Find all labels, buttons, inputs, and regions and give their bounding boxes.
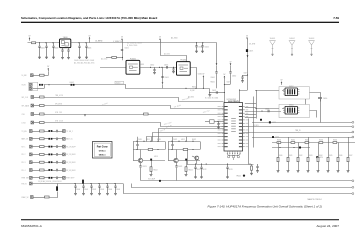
wire: [44, 138, 48, 140]
capacitor C6053: [166, 66, 167, 69]
wire: [52, 146, 56, 148]
wire emitter 11: [140, 163, 142, 166]
svg-text:C6062: C6062: [232, 76, 236, 78]
wire R11c gnd stub: [151, 171, 153, 174]
wire bias feed FL6051: [106, 57, 122, 59]
wire buffer rail 11: [133, 141, 165, 143]
svg-text:C6052: C6052: [150, 64, 154, 66]
bead on line 1: [269, 121, 271, 123]
svg-text:C6046: C6046: [205, 47, 209, 49]
svg-text:C6001: C6001: [40, 48, 45, 50]
arrow on riser: [247, 55, 249, 57]
capacitor C6005: [85, 43, 87, 57]
wire buffer mid rail 12: [168, 149, 200, 151]
offsheet terminal y122.3: [352, 121, 354, 123]
svg-text:TX_EN_2: TX_EN_2: [66, 131, 73, 133]
wire: [52, 162, 56, 164]
svg-text:C6121: C6121: [173, 139, 177, 141]
wire to U6054 in: [256, 108, 279, 110]
connector RX_2: [30, 153, 33, 156]
header rule: [21, 22, 339, 23]
connector out RX_2: [63, 153, 66, 156]
svg-text:R637: R637: [349, 155, 352, 157]
capacitor C6004: [78, 43, 80, 57]
wire: [52, 154, 56, 156]
svg-text:R6230: R6230: [319, 140, 323, 142]
svg-text:C6113: C6113: [143, 166, 147, 168]
ground: [195, 51, 198, 53]
connector RX_3: [30, 161, 33, 164]
wire analog rail: [187, 164, 254, 166]
svg-text:RX_4F_BUFF: RX_4F_BUFF: [66, 170, 76, 172]
offsheet terminal y132.0: [352, 131, 354, 133]
svg-text:C6144: C6144: [108, 189, 112, 191]
ground R11c: [150, 174, 153, 176]
wire gnd stub: [209, 93, 211, 95]
resistor R6370: [347, 157, 349, 161]
wire net SYN_LOCK: [45, 123, 224, 127]
junction: [39, 42, 40, 43]
junction: [150, 67, 151, 68]
ferrite bead E12: [185, 159, 187, 161]
junction rail 1111: [143, 141, 144, 142]
wire riser tap: [243, 75, 248, 77]
wire collector 12: [176, 150, 178, 159]
junction rail x201.5: [201, 163, 202, 164]
bead on bus 2: [272, 136, 274, 138]
svg-text:RX_4: RX_4: [22, 170, 26, 172]
svg-text:C6055: C6055: [165, 77, 169, 79]
ground: [106, 193, 109, 195]
svg-text:L6111: L6111: [146, 139, 150, 141]
svg-text:FL6051: FL6051: [130, 59, 136, 61]
wire: [32, 177, 39, 179]
wire: [34, 122, 40, 124]
svg-text:0_16MHZ_RF: 0_16MHZ_RF: [113, 41, 123, 43]
junction dark bottom: [159, 180, 161, 182]
wire base 12: [168, 160, 174, 162]
shield standoff SH6002: [289, 40, 295, 56]
vertical feed into U6000 pin 1: [223, 79, 225, 102]
capacitor C6142: [90, 184, 92, 194]
svg-text:U6052: U6052: [289, 86, 294, 88]
junction: [82, 183, 83, 184]
wire cap2 join: [224, 84, 230, 86]
junction rail x206.2: [206, 163, 207, 164]
shield standoff SH6001: [269, 40, 275, 56]
resistor R6200: [277, 142, 281, 144]
svg-text:TP6001: TP6001: [236, 175, 241, 177]
wire grid gnd stub 0: [278, 162, 280, 171]
wire buffer feed y132.5: [153, 133, 224, 142]
svg-text:16_8M: 16_8M: [22, 75, 27, 77]
ground: [90, 193, 93, 195]
wire 5V riser: [247, 40, 249, 90]
ground grid 2: [297, 171, 300, 173]
ground: [38, 57, 41, 59]
filter FL6051: [126, 60, 140, 74]
wire mod A out: [310, 93, 321, 123]
junction: [90, 183, 91, 184]
wire U6000 mod 114.5: [245, 114, 256, 116]
wire 5V drop to FL6051: [122, 42, 124, 61]
ground: [256, 171, 259, 173]
junction: [52, 42, 53, 43]
attenuator U6054 pins: [283, 108, 299, 112]
wire: [52, 170, 56, 172]
svg-text:RX_1: RX_1: [22, 146, 26, 148]
ground grid 3: [307, 171, 310, 173]
svg-text:SYN_LOCK: SYN_LOCK: [55, 121, 63, 123]
wire grid drop 1: [288, 137, 290, 157]
wire: [44, 75, 48, 77]
wire xtal to IC: [214, 121, 224, 123]
ground grid 1: [287, 171, 290, 173]
capacitor C6051 series: [121, 49, 123, 50]
junction riser elbow: [239, 89, 240, 90]
offsheet terminal y126.7: [352, 126, 354, 128]
ground: [52, 57, 55, 59]
connector J6003 LOCK: [31, 121, 34, 124]
synthesizer IC U6000: [224, 103, 243, 151]
wire U6000 mod 117.8: [245, 117, 256, 119]
ferrite bead PWR_SET: [48, 177, 52, 179]
flag on bus: [162, 82, 164, 84]
wire 5V feed to FL6052: [161, 42, 187, 62]
junction riser tap: [247, 74, 248, 75]
wire: [32, 162, 39, 164]
ground: [45, 57, 48, 59]
svg-text:C6051: C6051: [125, 48, 129, 50]
ground grid 5: [327, 171, 330, 173]
svg-text:VCO_BUF: VCO_BUF: [148, 179, 155, 181]
junction rail 1118: [150, 141, 151, 142]
wire buffer right edge 12: [200, 142, 202, 150]
ground: [226, 177, 229, 179]
resistor R6021: [144, 113, 149, 115]
capacitor C6141: [82, 184, 84, 194]
capacitor C12a: [171, 141, 173, 149]
svg-text:C6140: C6140: [76, 189, 80, 191]
capacitor C6055 on drop: [161, 77, 163, 78]
svg-text:L6113: L6113: [154, 156, 158, 158]
svg-text:C6142: C6142: [92, 189, 96, 191]
wire grid gnd stub 1: [288, 162, 290, 171]
capacitor C6122: [200, 164, 202, 177]
wire cap to bus: [216, 73, 218, 88]
junction rail 1225: [192, 141, 193, 142]
attenuator U6052 pins: [283, 90, 299, 94]
capacitor C6102: [56, 138, 57, 141]
ground R12c: [185, 174, 188, 176]
svg-text:L6210: L6210: [319, 157, 323, 159]
resistor R6106: [40, 169, 45, 171]
wire series cap to U6000: [210, 92, 225, 94]
svg-text:R633: R633: [309, 155, 312, 157]
capacitor C6003: [52, 43, 54, 57]
svg-text:C6121: C6121: [196, 169, 200, 171]
note box part gone: [93, 142, 113, 159]
junction rail 1125: [157, 141, 158, 142]
junction: [157, 149, 158, 150]
junction: [45, 42, 46, 43]
wire: [52, 138, 56, 140]
capacitor C6062: [229, 72, 231, 73]
attenuator U6052: [285, 88, 297, 96]
wire: [33, 197, 44, 199]
capacitor C6061: [215, 72, 217, 73]
resistor R6240: [333, 142, 337, 144]
svg-text:NU_C6108 0L_C6108: NU_C6108 0L_C6108: [127, 43, 142, 45]
wire net SYN_CSX: [44, 114, 224, 116]
connector J6002 pin A: [30, 83, 33, 86]
svg-text:Part Gone: Part Gone: [97, 146, 109, 149]
capacitor C6123: [226, 164, 228, 177]
power flag 5V row: [47, 68, 49, 71]
junction: [217, 121, 218, 122]
resistor R11b: [148, 149, 153, 151]
resistor R6102: [40, 138, 45, 140]
svg-text:C6143: C6143: [100, 189, 104, 191]
svg-text:SYNTHESIZER: SYNTHESIZER: [227, 99, 236, 101]
capacitor C11e: [139, 166, 141, 167]
wire bus y132.0: [243, 132, 353, 134]
wire: [34, 105, 40, 107]
svg-text:R636: R636: [339, 155, 342, 157]
svg-text:R6072: R6072: [192, 86, 196, 88]
wire U6000 mod out: [245, 111, 281, 113]
resistor R11c: [150, 167, 152, 172]
svg-text:L6002: L6002: [70, 82, 74, 84]
capacitor C6074: [216, 91, 217, 94]
resistor R12b: [183, 149, 188, 151]
wire Q out 12: [178, 160, 200, 162]
wire r6205 gnd stub: [251, 170, 253, 173]
junction: [78, 42, 79, 43]
wire buffer right edge 11: [165, 142, 167, 150]
wire emitter to rail 11: [140, 168, 142, 181]
svg-text:SH6003: SH6003: [309, 38, 315, 40]
junction rail x227.5: [227, 163, 228, 164]
svg-text:R6111: R6111: [157, 139, 161, 141]
wire base 11: [133, 160, 138, 162]
wire feed stub b 12: [186, 137, 188, 142]
junction: [106, 183, 107, 184]
svg-text:R6061: R6061: [211, 82, 215, 84]
junction flag3: [203, 88, 204, 89]
capacitor C6045: [195, 43, 197, 51]
U6000 ground bracket: [227, 154, 240, 160]
modulator loop A: [279, 87, 309, 99]
reference oscillator Y6000: [60, 39, 71, 48]
svg-text:C6075: C6075: [227, 82, 231, 84]
svg-text:Y6000: Y6000: [63, 37, 68, 39]
bead grid 2: [316, 156, 318, 158]
svg-text:7-59: 7-59: [333, 16, 339, 20]
wire bus y122.3: [252, 122, 352, 124]
connector out RX_3: [63, 161, 66, 164]
capacitor C6054: [172, 67, 174, 71]
wire Q out 11: [143, 160, 165, 162]
wire bus y137.0: [252, 137, 352, 139]
wire: [58, 131, 63, 133]
junction: [195, 88, 196, 89]
offsheet terminal bottom 2: [352, 186, 354, 188]
wire L6141 to rail: [57, 184, 59, 187]
resistor R6205: [251, 166, 253, 170]
wire emitter to rail 12: [176, 168, 178, 181]
wire grid drop 6: [338, 143, 340, 158]
svg-text:R6210: R6210: [291, 140, 295, 142]
wire: [44, 170, 48, 172]
svg-text:SH6001: SH6001: [270, 38, 276, 40]
connector out RX_4: [63, 169, 66, 172]
resistor R6051: [112, 56, 117, 58]
capacitor C6101: [56, 130, 57, 133]
offsheet terminal y137.0: [352, 136, 354, 138]
connector FW_5V: [30, 182, 33, 185]
wire grid feed 2: [272, 147, 310, 149]
wire base drop 11: [133, 150, 135, 161]
resistor R6220: [305, 142, 309, 144]
junction: [74, 183, 75, 184]
resistor R6210: [291, 142, 295, 144]
wire to U6052 in: [256, 90, 279, 92]
wire grid gnd stub 5: [328, 162, 330, 171]
wire U6000 mod 103.5: [245, 103, 256, 105]
wire: [58, 138, 63, 140]
modulator loop B: [279, 104, 309, 117]
svg-text:U6054: U6054: [289, 105, 294, 107]
power flag 2 A4_5V00: [230, 63, 232, 65]
wire buffer rail 12: [168, 141, 200, 143]
wire grid gnd stub 3: [308, 162, 310, 171]
wire: [44, 162, 48, 164]
wire FRAC_5V feed: [50, 192, 58, 198]
wire feed stub b 11: [151, 137, 153, 142]
oscillator Y6000 internals: [61, 41, 68, 46]
svg-text:C6045 C6046 C6047 C6048: C6045 C6046 C6047 C6048: [74, 60, 94, 62]
junction rail x250: [249, 163, 250, 164]
svg-text:C6145: C6145: [116, 189, 120, 191]
svg-text:6800-1: 6800-1: [99, 154, 107, 156]
wire grid gnd stub 7: [348, 162, 350, 171]
ground: [114, 193, 117, 195]
wire buffer feed y128.5: [159, 129, 224, 142]
resistor R6012: [40, 105, 45, 107]
wire collector 11: [140, 150, 142, 159]
junction: [114, 183, 115, 184]
svg-text:R635: R635: [329, 155, 332, 157]
svg-text:TRB_LOCK: TRB_LOCK: [55, 95, 63, 97]
wire Q6003 base: [192, 156, 195, 157]
wire bus elbow: [209, 89, 211, 93]
svg-text:SH6002: SH6002: [289, 38, 295, 40]
resistor R6014: [40, 122, 45, 124]
wire buffer left edge 12: [168, 142, 170, 150]
junction cap wire: [209, 92, 210, 93]
wire buffer left edge 11: [133, 142, 135, 150]
ground: [85, 57, 88, 59]
wire: [58, 177, 63, 179]
resistor R12c: [185, 167, 187, 172]
svg-text:C6005: C6005: [87, 48, 92, 50]
capacitor C12e: [175, 166, 177, 167]
connector out TX_EN: [63, 130, 66, 133]
ground grid 0: [277, 171, 280, 173]
ferrite bead RX_4: [48, 169, 52, 171]
resistor R6340: [317, 157, 319, 161]
ground: [78, 57, 81, 59]
wire: [52, 131, 56, 133]
wire emitter 12: [176, 163, 178, 166]
capacitor C6105: [56, 161, 57, 164]
svg-text:R6121: R6121: [192, 139, 196, 141]
ground: [201, 51, 204, 53]
U6000 internal text: [231, 118, 236, 132]
wire 5V to oscillator: [89, 40, 91, 42]
junction rail x195.6: [195, 163, 196, 164]
junction C6045: [196, 42, 197, 43]
svg-text:CSX: CSX: [22, 114, 25, 116]
capacitor C6077: [241, 75, 243, 81]
svg-text:SPI_MOSI: SPI_MOSI: [55, 104, 63, 106]
U6000 bottom pins: [227, 151, 241, 155]
wire net SPI_MOSI: [45, 106, 224, 109]
transistor Q6003: [195, 156, 199, 160]
wire grid gnd stub 2: [298, 162, 300, 171]
wire 5V feed drop: [216, 43, 218, 64]
svg-text:FL6052: FL6052: [180, 60, 186, 62]
resistor R6350: [327, 157, 329, 161]
wire: [44, 146, 48, 148]
capacitor C11a: [136, 141, 138, 149]
wire: [32, 170, 39, 172]
resistor R6300: [277, 157, 279, 161]
wire 5V decoupling rail: [32, 183, 123, 185]
wire modulator riser: [256, 91, 258, 119]
svg-text:L6071: L6071: [249, 51, 253, 53]
resistor R6310: [287, 157, 289, 161]
wire loop link: [305, 99, 307, 104]
connector PWR_SET: [30, 176, 33, 179]
ground: [200, 177, 203, 179]
svg-text:C6123: C6123: [178, 166, 182, 168]
connector J6002 pin B: [30, 87, 33, 90]
wire flag2 to cap: [230, 65, 232, 71]
bead on bus: [260, 119, 262, 121]
ground C6074: [208, 95, 211, 97]
capacitor C6052: [153, 67, 155, 72]
junction rail 1211: [178, 141, 179, 142]
filter FL6052 internals: [179, 65, 189, 72]
svg-text:PWR_SET: PWR_SET: [22, 178, 30, 180]
junction: [161, 67, 162, 68]
wire rail left drop: [187, 151, 189, 165]
svg-text:C6122: C6122: [202, 169, 206, 171]
offsheet terminal bottom 3: [352, 193, 354, 195]
svg-text:RX_3F_BUFF: RX_3F_BUFF: [66, 162, 76, 164]
junction: [279, 147, 280, 148]
wire net TRB_LOCK: [45, 98, 224, 102]
wire grid drop 5: [328, 137, 330, 157]
junction: [98, 183, 99, 184]
wire: [32, 138, 39, 140]
ferrite bead L6002: [71, 84, 75, 86]
power flag 5V FL6051: [121, 38, 123, 41]
filter FL6052: [177, 62, 191, 76]
power flag VR1 5V: [29, 37, 31, 40]
